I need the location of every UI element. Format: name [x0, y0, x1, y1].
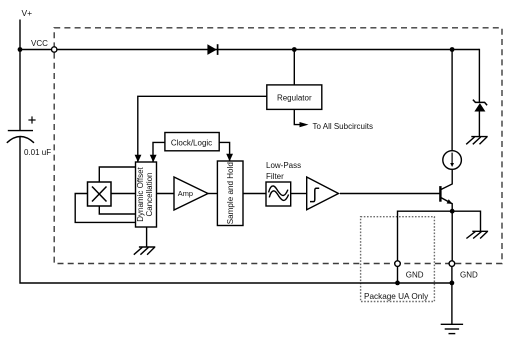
ground earth symbol — [441, 324, 463, 333]
diode D1 on rail — [207, 44, 217, 55]
ground chassis right of emitter — [466, 231, 488, 238]
GND pin circle — [449, 261, 455, 267]
node right branch dot — [450, 47, 455, 52]
wire emitter node right to chassis ground — [452, 211, 480, 231]
svg-text:Cancellation: Cancellation — [145, 172, 154, 216]
svg-text:Clock/Logic: Clock/Logic — [171, 138, 212, 147]
sample and hold box — [217, 161, 243, 226]
wire emitter node left to pkg GND — [398, 211, 453, 261]
svg-text:Sample and Hold: Sample and Hold — [226, 162, 235, 224]
wire V+ vertical — [19, 20, 21, 131]
svg-text:Package UA Only: Package UA Only — [364, 292, 429, 301]
package UA only dotted box — [361, 217, 435, 302]
node gnd dot — [450, 281, 455, 286]
svg-text:0.01 uF: 0.01 uF — [24, 148, 51, 157]
wire schmitt to transistor base — [340, 193, 440, 195]
current source I1 — [443, 151, 462, 170]
node VCC junction dot — [18, 47, 23, 52]
schmitt trigger triangle — [307, 177, 339, 210]
VCC pin open circle — [52, 47, 57, 52]
svg-text:Dynamic Offset: Dynamic Offset — [136, 166, 145, 221]
wire pkg GND pin to rail — [397, 266, 399, 283]
wire GND pin to rail — [451, 266, 453, 283]
ground chassis below DOC — [134, 247, 156, 255]
wire regulator to DOC — [138, 96, 267, 161]
wire DOC to amp — [157, 193, 175, 195]
svg-text:VCC: VCC — [31, 39, 48, 48]
wire hall bottom to DOC — [99, 206, 135, 214]
wire clock to sample/hold — [219, 142, 229, 160]
hall element X — [88, 182, 112, 206]
svg-text:GND: GND — [460, 271, 478, 280]
wire amp to sample/hold — [208, 193, 217, 195]
svg-text:GND: GND — [406, 271, 424, 280]
regulator box — [267, 85, 322, 110]
wire emitter node down to GND pin — [451, 211, 453, 261]
op-amp Amp triangle — [174, 177, 208, 210]
node pkg gnd dot — [395, 281, 400, 286]
svg-text:Amp: Amp — [178, 189, 193, 198]
wire VCC top rail — [20, 49, 479, 51]
GND pin circle (package UA) — [395, 261, 401, 267]
capacitor C 0.01uF — [7, 116, 36, 142]
node emitter dot — [450, 209, 455, 214]
wire regulator to subcircuits — [294, 109, 300, 124]
ground chassis below zener — [466, 137, 488, 145]
transistor Q1 — [440, 169, 452, 211]
wire hall left wraparound to DOC — [75, 194, 135, 223]
wire gnd to earth — [451, 283, 453, 324]
wire sample/hold to filter — [243, 193, 266, 195]
wire rail to current source — [451, 50, 453, 151]
zener diode Z1 — [473, 100, 487, 112]
wire hall top to DOC — [99, 167, 135, 182]
chip boundary dashed box — [54, 28, 502, 264]
wire hall right to DOC — [111, 193, 136, 195]
wire capacitor bottom to ground rail — [20, 137, 452, 283]
clock/logic box — [165, 133, 219, 151]
svg-text:Regulator: Regulator — [277, 93, 312, 102]
svg-text:To All Subcircuits: To All Subcircuits — [313, 122, 373, 131]
svg-text:V+: V+ — [22, 8, 33, 18]
wire DOC to chassis ground — [146, 227, 148, 247]
svg-text:Low-Pass: Low-Pass — [266, 161, 301, 170]
wire rail corner to zener — [478, 49, 480, 102]
wire zener to ground — [478, 112, 480, 137]
wire clock to DOC — [153, 142, 165, 161]
wire regulator to rail — [293, 50, 295, 85]
wire filter to schmitt — [291, 193, 307, 195]
svg-text:Filter: Filter — [266, 172, 284, 181]
dynamic offset cancellation box — [136, 162, 157, 227]
node regulator tap dot — [292, 47, 297, 52]
low-pass filter box — [266, 182, 291, 206]
